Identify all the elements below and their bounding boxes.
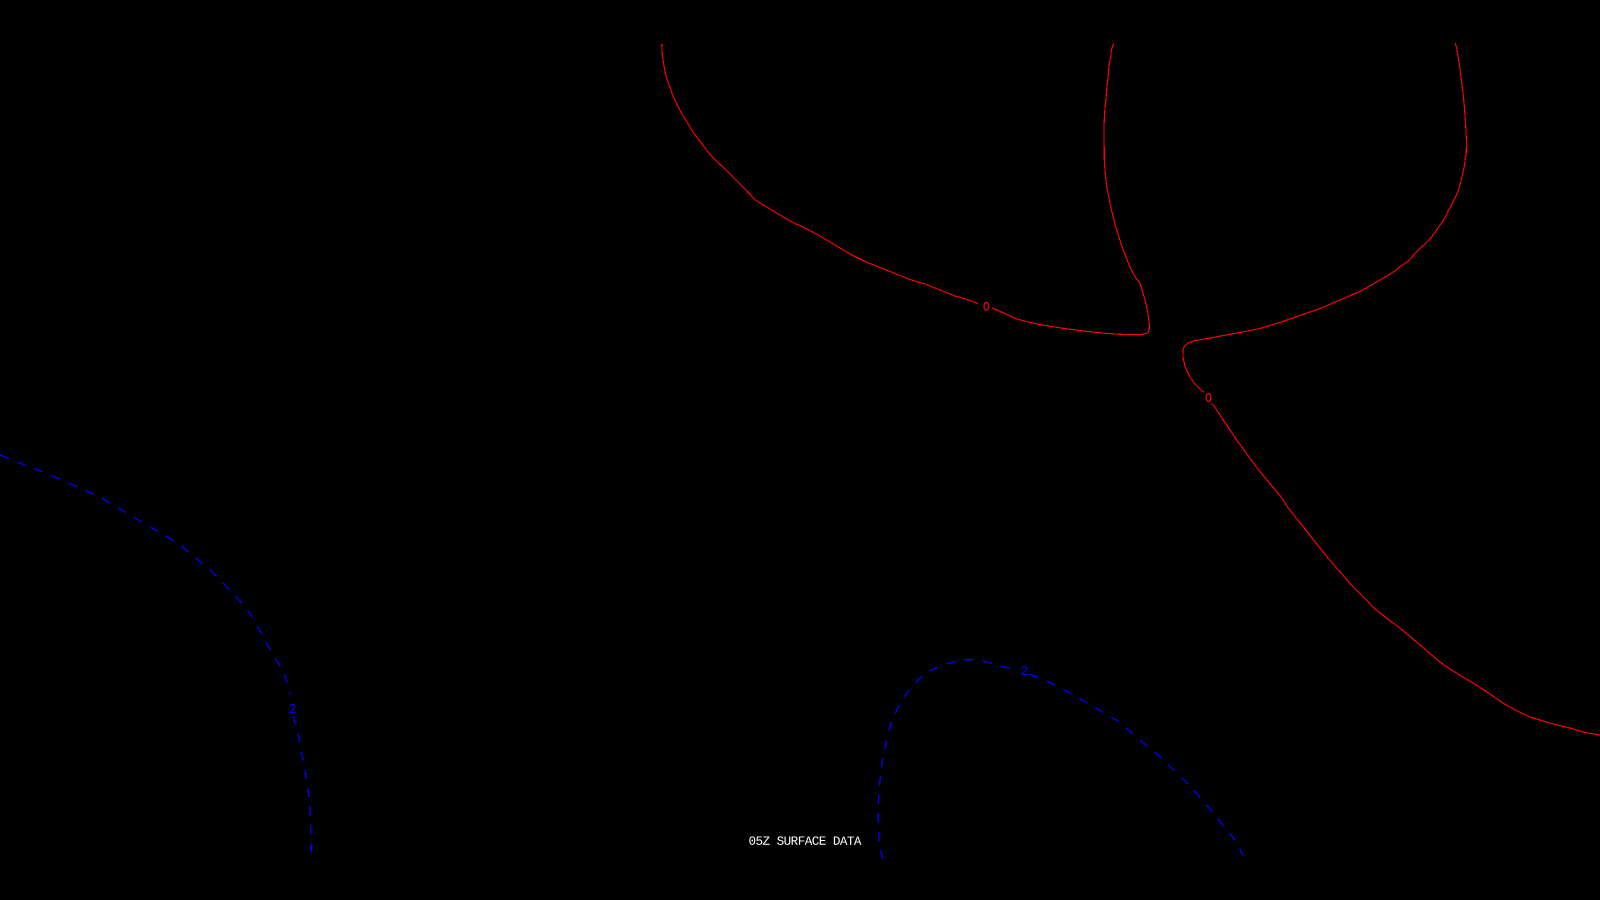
red contour 0 east: label 0 bbox=[1206, 394, 1211, 402]
red contour 0 west: segment after label through corner up to top bbox=[992, 44, 1150, 335]
red contour 0 east: from top down to hook (segment before label) bbox=[1183, 43, 1467, 392]
red contour 0 west: sweep from top-left down to junction (segment before label) bbox=[662, 44, 978, 304]
red contour 0 east: segment after label down to right edge bbox=[1212, 403, 1600, 735]
blue contour 2 west: label 2 bbox=[288, 703, 296, 718]
svg-text:2: 2 bbox=[288, 703, 296, 718]
svg-text:2: 2 bbox=[1020, 665, 1028, 680]
caption: 05Z SURFACE DATA bbox=[748, 835, 861, 849]
blue contour 2 south: dashed, right arm descending to bottom (segment after label) bbox=[1030, 674, 1244, 855]
blue contour 2 south: dashed, left arm rising from bottom to apex (segment before label) bbox=[878, 660, 1013, 859]
blue contour 2 west: dashed, segment after label to lower end bbox=[294, 716, 312, 856]
blue contour 2 west: dashed, from left edge down (segment before label) bbox=[0, 455, 290, 694]
svg-text:05Z SURFACE DATA: 05Z SURFACE DATA bbox=[748, 835, 861, 849]
red contour 0 west: label 0 bbox=[984, 303, 989, 311]
blue contour 2 south: label 2 bbox=[1020, 665, 1028, 680]
